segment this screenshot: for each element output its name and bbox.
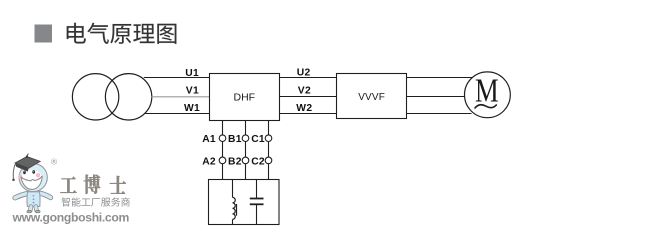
svg-text:DHF: DHF [234,92,256,104]
svg-text:B1: B1 [228,134,242,145]
svg-text:®: ® [51,156,58,166]
svg-text:W1: W1 [184,103,200,114]
svg-text:W2: W2 [296,103,312,114]
svg-text:C2: C2 [251,156,265,167]
svg-text:V2: V2 [298,86,311,97]
svg-text:M: M [475,72,499,110]
svg-text:A2: A2 [202,156,216,167]
svg-text:C1: C1 [251,134,265,145]
svg-text:VVVF: VVVF [358,92,385,103]
svg-text:A1: A1 [202,134,216,145]
svg-text:www.gongboshi.com: www.gongboshi.com [12,211,130,225]
svg-text:U2: U2 [297,68,311,79]
svg-text:U1: U1 [185,68,199,79]
svg-text:V1: V1 [186,86,199,97]
svg-text:B2: B2 [228,156,242,167]
